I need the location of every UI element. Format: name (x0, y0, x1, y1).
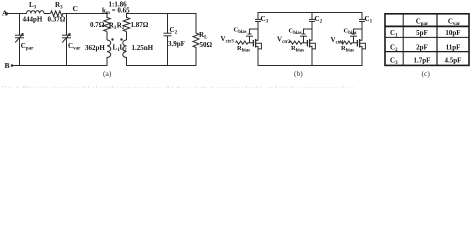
svg-text:362pH: 362pH (85, 44, 105, 52)
capacitor Cbias (ctr2) (289, 28, 313, 43)
inductor L2 1.25nH (120, 40, 154, 57)
capacitor Cbias (ctr3) (234, 27, 259, 43)
capacitor C1 (359, 13, 373, 25)
svg-text:Vctr3: Vctr3 (221, 35, 235, 44)
capacitor C2 3.9pF (164, 14, 185, 66)
table row C3 (390, 57, 461, 67)
transistor Q1 (NMOS switch) (352, 39, 365, 66)
svg-text:11pF: 11pF (446, 44, 461, 52)
svg-text:5pF: 5pF (416, 29, 428, 37)
inductor L1 362pH (85, 40, 120, 57)
svg-text:50Ω: 50Ω (200, 41, 213, 49)
polarity dot secondary (120, 38, 122, 40)
svg-text:1.87Ω: 1.87Ω (131, 21, 149, 29)
resistor Rbias (ctr3) (236, 41, 251, 53)
svg-text:Cbias: Cbias (234, 27, 247, 35)
svg-text:444pH: 444pH (23, 16, 43, 24)
wire L3 to R3 (44, 13, 51, 15)
svg-text:0.7Ω: 0.7Ω (90, 21, 105, 29)
capacitor Cpar (variable) (15, 14, 34, 66)
svg-text:Rbias: Rbias (237, 45, 250, 53)
node A (2, 9, 8, 18)
svg-text:2pF: 2pF (416, 44, 428, 52)
polarity dot primary (111, 38, 113, 40)
svg-text:C2: C2 (170, 26, 178, 36)
svg-text:C: C (73, 4, 78, 13)
svg-text:1.7pF: 1.7pF (414, 57, 431, 65)
resistor R3 0.37ohm (48, 1, 66, 24)
table row C2 (390, 44, 460, 54)
svg-text:Fig. 4: Physical circuit mode: Fig. 4: Physical circuit model of (a) th… (1, 84, 357, 88)
part b top wire (258, 13, 362, 19)
transistor Q3 (NMOS switch) (248, 39, 261, 66)
capacitor Cbias (ctr1) (344, 28, 363, 43)
svg-text:Cbias: Cbias (289, 28, 302, 36)
svg-text:C3: C3 (261, 15, 269, 25)
wire A to L3 (7, 13, 27, 15)
svg-text:C2: C2 (315, 15, 323, 25)
table (c) frame (385, 14, 469, 66)
wire R2 to L2 (126, 32, 128, 41)
secondary top wire (127, 14, 197, 34)
svg-text:RL: RL (199, 31, 208, 41)
capacitor C2 (309, 13, 323, 25)
resistor Rbias (ctr2) (290, 41, 305, 53)
svg-text:km = 0.65: km = 0.65 (102, 7, 130, 16)
resistor R1 0.7ohm (90, 18, 117, 32)
svg-text:Cvar: Cvar (68, 42, 81, 52)
transistor Q2 (NMOS switch) (302, 39, 315, 66)
svg-text:Rbias: Rbias (291, 45, 304, 53)
table row C1 (390, 29, 461, 39)
svg-text:Rbias: Rbias (341, 45, 354, 53)
svg-text:1.25nH: 1.25nH (132, 44, 154, 52)
node B (5, 61, 14, 70)
svg-text:Cpar: Cpar (21, 42, 34, 52)
bottom wire primary (12, 58, 107, 66)
svg-text:Vctr2: Vctr2 (277, 36, 291, 45)
svg-text:0.37Ω: 0.37Ω (48, 16, 66, 24)
wire R3 to primary (63, 14, 107, 18)
part b bottom wire (258, 65, 362, 67)
svg-text:R3: R3 (55, 1, 63, 11)
wire R1 to L1 (106, 32, 108, 41)
wire cap to transistor Q1 (361, 21, 363, 40)
svg-text:3.9pF: 3.9pF (168, 40, 185, 48)
wire cap to transistor Q2 (311, 21, 313, 40)
svg-text:10pF: 10pF (445, 29, 460, 37)
svg-text:4.5pF: 4.5pF (445, 57, 462, 65)
resistor Rbias (ctr1) (340, 41, 355, 53)
svg-text:R1: R1 (109, 22, 117, 32)
capacitor C3 (255, 13, 269, 25)
svg-text:(c): (c) (422, 69, 431, 78)
svg-text:B: B (5, 61, 10, 70)
svg-text:(a): (a) (103, 69, 112, 78)
svg-text:L2: L2 (120, 44, 128, 54)
secondary bottom wire (127, 48, 197, 66)
inductor L3 444pH (23, 1, 45, 24)
resistor R2 1.87ohm (117, 18, 149, 32)
svg-text:R2: R2 (117, 22, 125, 32)
capacitor Cvar (variable) (62, 14, 81, 66)
svg-text:L3: L3 (29, 1, 37, 11)
svg-text:C3: C3 (390, 57, 398, 67)
svg-text:(b): (b) (294, 69, 303, 78)
svg-text:C1: C1 (365, 15, 373, 25)
wire cap to transistor Q3 (257, 21, 259, 40)
resistor RL 50ohm (193, 31, 213, 49)
